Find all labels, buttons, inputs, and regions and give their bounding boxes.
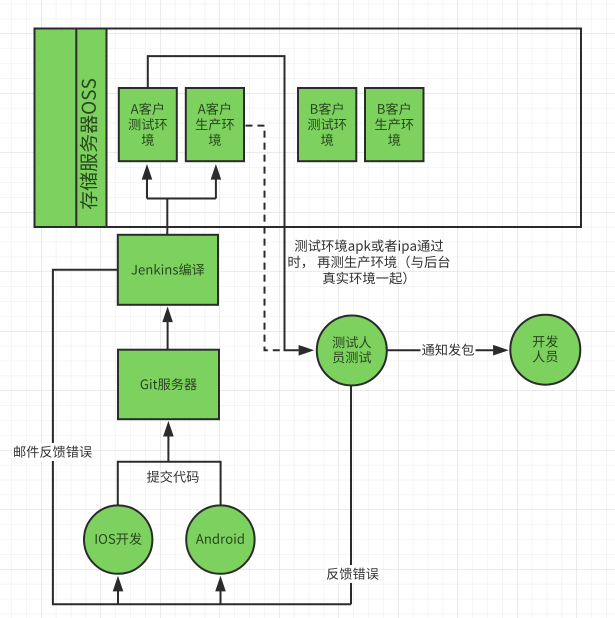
box Git服务器 xyxy=(118,350,219,420)
note 测试环境说明 xyxy=(288,239,449,284)
label 反馈错误 xyxy=(326,565,379,583)
wire 测试人员测试 to 开发人员 (通知发包) xyxy=(387,345,509,356)
circle Android xyxy=(186,505,254,573)
box Jenkins编译 xyxy=(118,235,218,305)
lane title 存储服务器OSS (vertical) xyxy=(80,79,98,209)
label 通知发包 xyxy=(421,342,476,359)
wire IOS/Android to Git服务器 (merge bracket) xyxy=(118,421,221,506)
box A客户生产环境 xyxy=(186,88,244,161)
box B客户测试环境 xyxy=(298,88,356,161)
wire dashed A客户生产环境 to 测试人员测试 xyxy=(246,126,284,351)
wire Jenkins编译 to A boxes (split) xyxy=(142,164,222,235)
box B客户生产环境 xyxy=(365,88,424,161)
label 邮件反馈错误 xyxy=(12,443,93,461)
wire Git服务器 to Jenkins编译 xyxy=(162,307,173,350)
swimlane pool 存储服务器OSS xyxy=(35,29,582,228)
circle IOS开发 xyxy=(84,505,152,573)
wire A客户测试环境 to 测试人员测试 xyxy=(148,56,314,356)
circle 测试人员测试 xyxy=(317,316,387,386)
label 提交代码 xyxy=(147,470,199,482)
wire Jenkins编译 feedback to developers (邮件反馈错误) xyxy=(53,270,351,605)
circle 开发人员 xyxy=(510,315,580,385)
wire 测试人员测试 feedback down (反馈错误) xyxy=(350,385,352,604)
box A客户测试环境 xyxy=(119,88,177,161)
